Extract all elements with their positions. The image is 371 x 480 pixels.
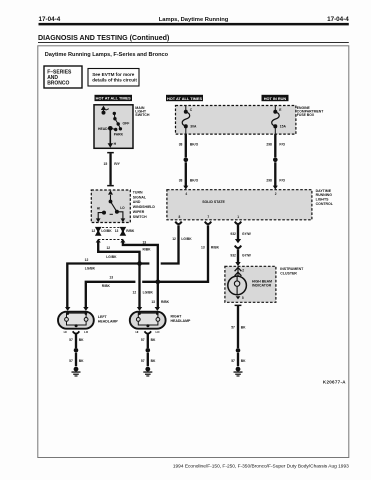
svg-text:BK: BK — [241, 326, 246, 330]
svg-text:INDICATOR: INDICATOR — [252, 284, 272, 288]
svg-text:OFF: OFF — [123, 121, 130, 125]
svg-text:38: 38 — [179, 178, 183, 182]
svg-text:LO: LO — [120, 206, 125, 210]
svg-text:13: 13 — [201, 246, 205, 250]
svg-text:P/O: P/O — [279, 178, 285, 182]
svg-text:12: 12 — [133, 290, 137, 294]
svg-text:HOT AT ALL TIMES: HOT AT ALL TIMES — [167, 97, 202, 101]
svg-text:38: 38 — [179, 142, 183, 146]
svg-text:13: 13 — [115, 229, 119, 233]
svg-text:932: 932 — [230, 232, 236, 236]
svg-text:CLUSTER: CLUSTER — [280, 271, 297, 275]
svg-text:R/BK: R/BK — [161, 300, 170, 304]
svg-text:SOLID STATE: SOLID STATE — [202, 200, 225, 204]
svg-text:12: 12 — [172, 237, 176, 241]
svg-text:RUNNING: RUNNING — [316, 193, 333, 197]
svg-text:1994 Econoline/F-150, F-250, F: 1994 Econoline/F-150, F-250, F-350/Bronc… — [173, 464, 349, 470]
svg-text:BK/O: BK/O — [190, 142, 199, 146]
svg-text:13: 13 — [142, 241, 146, 245]
svg-text:57: 57 — [69, 359, 73, 363]
svg-text:12: 12 — [85, 258, 89, 262]
svg-text:BK: BK — [241, 359, 246, 363]
svg-text:1: 1 — [237, 215, 239, 219]
svg-text:BK: BK — [79, 338, 84, 342]
svg-text:LIGHTS: LIGHTS — [316, 198, 329, 202]
svg-text:DIAGNOSIS AND TESTING (Continu: DIAGNOSIS AND TESTING (Continued) — [38, 34, 170, 42]
svg-text:57: 57 — [231, 359, 235, 363]
svg-text:932: 932 — [230, 254, 236, 258]
svg-text:K20677-A: K20677-A — [323, 380, 346, 385]
svg-text:FUSE BOX: FUSE BOX — [297, 113, 315, 117]
svg-text:AND: AND — [133, 200, 141, 204]
svg-text:LG/BK: LG/BK — [181, 237, 192, 241]
svg-text:5: 5 — [242, 296, 244, 300]
svg-text:P/O: P/O — [279, 142, 285, 146]
svg-text:57: 57 — [231, 326, 235, 330]
svg-text:HEADLAMP: HEADLAMP — [171, 319, 191, 323]
svg-text:LG/BK: LG/BK — [101, 229, 112, 233]
svg-text:R/BK: R/BK — [102, 284, 111, 288]
svg-text:TURN: TURN — [133, 190, 143, 194]
svg-text:17-04-4: 17-04-4 — [39, 16, 61, 23]
svg-text:Lamps, Daytime Running: Lamps, Daytime Running — [159, 17, 229, 23]
svg-text:LG/BK: LG/BK — [106, 255, 117, 259]
svg-text:12: 12 — [106, 246, 110, 250]
svg-text:BK: BK — [151, 359, 156, 363]
svg-text:BK/O: BK/O — [190, 178, 199, 182]
svg-text:HI: HI — [64, 330, 67, 334]
svg-text:298: 298 — [266, 142, 272, 146]
svg-text:57: 57 — [69, 338, 73, 342]
svg-text:PARK: PARK — [114, 132, 124, 136]
svg-text:7: 7 — [207, 215, 209, 219]
svg-text:13: 13 — [109, 275, 113, 279]
svg-text:SIGNAL: SIGNAL — [133, 195, 147, 199]
svg-text:HOT AT ALL TIMES: HOT AT ALL TIMES — [96, 97, 131, 101]
svg-text:57: 57 — [141, 338, 145, 342]
svg-text:2: 2 — [275, 192, 277, 196]
svg-text:GY/W: GY/W — [242, 254, 252, 258]
svg-text:4: 4 — [185, 192, 187, 196]
svg-text:SWITCH: SWITCH — [133, 215, 147, 219]
svg-text:30A: 30A — [190, 124, 197, 128]
svg-text:DAYTIME: DAYTIME — [316, 189, 332, 193]
svg-text:R/BK: R/BK — [126, 229, 135, 233]
svg-text:HI: HI — [97, 206, 100, 210]
svg-text:8: 8 — [179, 215, 181, 219]
svg-text:HEAD: HEAD — [98, 127, 108, 131]
svg-text:LG/BK: LG/BK — [85, 266, 96, 270]
svg-text:WIPER: WIPER — [133, 210, 145, 214]
svg-text:WINDSHIELD: WINDSHIELD — [133, 205, 156, 209]
svg-text:INSTRUMENT: INSTRUMENT — [280, 267, 304, 271]
svg-text:LG/BK: LG/BK — [143, 290, 154, 294]
svg-text:GY/W: GY/W — [242, 232, 252, 236]
svg-text:HI: HI — [135, 330, 138, 334]
svg-text:SWITCH: SWITCH — [135, 113, 150, 117]
svg-text:BRONCO: BRONCO — [47, 80, 69, 86]
svg-text:BK: BK — [151, 338, 156, 342]
svg-text:Daytime Running Lamps, F-Serie: Daytime Running Lamps, F-Series and Bron… — [45, 52, 169, 58]
svg-text:13: 13 — [151, 300, 155, 304]
svg-text:17-04-4: 17-04-4 — [327, 16, 349, 23]
svg-text:12: 12 — [92, 229, 96, 233]
svg-text:R/Y: R/Y — [114, 162, 120, 166]
svg-text:298: 298 — [266, 178, 272, 182]
svg-text:15: 15 — [104, 162, 108, 166]
svg-text:HEADLAMP: HEADLAMP — [98, 319, 118, 323]
svg-text:R/BK: R/BK — [143, 248, 152, 252]
svg-text:15A: 15A — [280, 124, 287, 128]
svg-text:R/BK: R/BK — [211, 246, 220, 250]
svg-text:details of this circuit: details of this circuit — [92, 77, 137, 82]
svg-text:2: 2 — [242, 268, 244, 272]
svg-text:HOT IN RUN: HOT IN RUN — [264, 97, 287, 101]
svg-text:BK: BK — [79, 359, 84, 363]
svg-text:CONTROL: CONTROL — [316, 202, 334, 206]
svg-text:57: 57 — [141, 359, 145, 363]
